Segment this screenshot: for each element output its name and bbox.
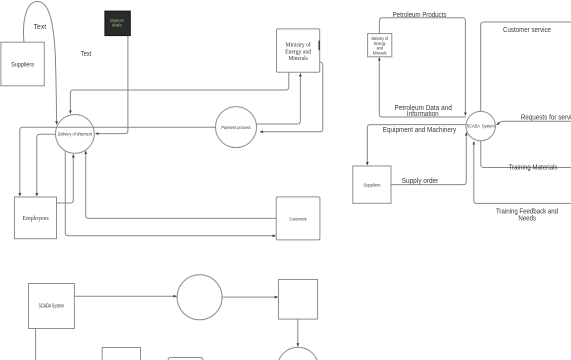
square node (empty)	[279, 280, 318, 320]
svg-text:Ministry of: Ministry of	[286, 41, 311, 48]
entity: Ministry of Energy and Minerals (diagram 1)	[277, 29, 320, 72]
wire: Delivery left to Employees (2nd)	[37, 134, 56, 196]
svg-text:Suppliers: Suppliers	[363, 182, 381, 187]
wire: Employees right up to Delivery bottom	[57, 154, 74, 203]
svg-text:Text: Text	[81, 51, 91, 58]
svg-text:Training Materials: Training Materials	[509, 164, 558, 171]
wire: Requests for service (right into SCADA)	[497, 121, 571, 125]
wire: Equipment and Machinery (SCADA to Suppliers2)	[367, 125, 466, 165]
svg-text:details: details	[112, 23, 122, 28]
wire: Customers to Delivery bottom-right	[86, 151, 276, 218]
wire: Delivery bottom to Customers	[65, 151, 275, 236]
bottom rect 2 (clipped)	[168, 358, 203, 360]
process: SCADA System (circle)	[466, 111, 495, 140]
dark mark on Ministry1 right edge	[318, 41, 320, 51]
entity: Employees	[15, 197, 57, 239]
entity: Shipment details (dark)	[105, 11, 130, 35]
wire: Delivery to Payment (through circle) and down to Employees	[20, 127, 216, 196]
svg-text:Customer service: Customer service	[503, 27, 551, 34]
wire: Training Feedback and Needs (right into SCADA bottom)	[474, 142, 571, 204]
svg-text:Suppliers: Suppliers	[11, 62, 34, 69]
svg-text:Minerals: Minerals	[373, 51, 387, 56]
circle node (empty)	[177, 275, 222, 320]
process: Delivery of shipment	[56, 114, 95, 153]
svg-text:Payment process: Payment process	[221, 125, 250, 130]
svg-text:Delivery of shipment: Delivery of shipment	[58, 132, 93, 137]
svg-text:Information: Information	[407, 111, 439, 118]
bottom rect 1 (clipped)	[102, 348, 140, 360]
svg-text:Employees: Employees	[23, 216, 50, 222]
wire: Ministry1 right down to Payment	[260, 62, 323, 132]
svg-text:SCADA System: SCADA System	[39, 304, 65, 310]
entity: Ministry of Energy and Minerals (small)	[368, 34, 392, 57]
wire: SCADA3 bottom down	[35, 329, 37, 360]
svg-text:Customers: Customers	[289, 216, 306, 221]
wire: Petroleum Products (Ministry2 top to SCADA)	[379, 18, 465, 116]
wire: Ministry1 bottom to Delivery top	[70, 73, 288, 114]
svg-text:Energy and: Energy and	[285, 49, 311, 55]
wire: SCADA3 to circle3	[75, 295, 177, 297]
svg-text:Supply order: Supply order	[402, 178, 439, 185]
box: SCADA System (rect)	[29, 284, 75, 329]
process: Payment process	[216, 107, 257, 148]
svg-text:Training Feedback and: Training Feedback and	[496, 208, 558, 215]
entity: Suppliers	[1, 42, 44, 86]
wire: Customer service (SCADA top up right)	[481, 22, 571, 111]
wire: Training Materials (SCADA bottom right)	[481, 141, 571, 168]
svg-text:Text: Text	[34, 24, 47, 31]
svg-text:SCADA System: SCADA System	[467, 124, 495, 129]
svg-text:Equipment and Machinery: Equipment and Machinery	[383, 127, 457, 134]
svg-text:Minerals: Minerals	[288, 56, 308, 62]
wire: Supply order (Suppliers2 to SCADA)	[391, 133, 466, 185]
entity: Customers	[276, 197, 320, 240]
wire: circle3 to square3	[222, 296, 278, 298]
wire: square3 down to bottom circle	[297, 319, 299, 346]
wire: Suppliers arc to Delivery of shipment	[24, 2, 57, 125]
bottom circle (clipped)	[277, 347, 318, 360]
wire: Petroleum Data and Information (SCADA to Ministry2)	[379, 58, 466, 117]
svg-text:Needs: Needs	[518, 216, 536, 223]
svg-text:Petroleum Products: Petroleum Products	[393, 12, 447, 19]
wire: Payment right up to Ministry1 bottom	[256, 73, 300, 124]
entity: Suppliers (diagram 2)	[353, 166, 391, 203]
wire: Shipment details to Delivery right	[96, 36, 128, 134]
svg-text:Requests for service: Requests for service	[521, 115, 571, 122]
